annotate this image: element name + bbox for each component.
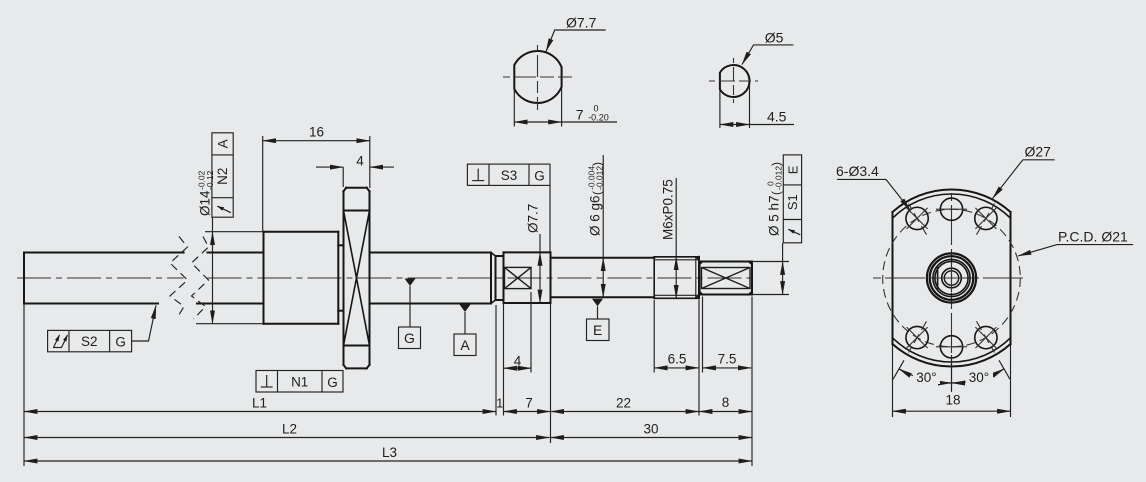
svg-text:N2: N2 bbox=[215, 168, 230, 185]
svg-text:E: E bbox=[593, 322, 602, 338]
svg-text:16: 16 bbox=[309, 125, 324, 140]
dim dia 7.7 journal (rotated) bbox=[539, 234, 541, 252]
svg-text:22: 22 bbox=[616, 396, 631, 411]
svg-text:): ) bbox=[769, 162, 783, 166]
dim 4.5 bbox=[719, 89, 721, 128]
svg-text:E: E bbox=[785, 165, 800, 174]
dim 7 with tolerance bbox=[513, 90, 515, 127]
journal dia 7.7 with flat (X box) bbox=[503, 252, 505, 303]
svg-text:A: A bbox=[460, 337, 470, 353]
svg-text:A: A bbox=[215, 139, 230, 148]
svg-text:-0.012: -0.012 bbox=[774, 166, 784, 190]
svg-text:Ø 5 h7: Ø 5 h7 bbox=[767, 195, 782, 236]
shaft dia 6 g6 section bbox=[553, 257, 655, 259]
dim 4 flange width bbox=[342, 167, 344, 187]
leader dia 27 bbox=[1023, 159, 1055, 161]
svg-text:N1: N1 bbox=[291, 374, 308, 389]
centerlines bbox=[709, 80, 758, 82]
radial centerline dashes through angled holes bbox=[977, 204, 995, 235]
flange flats (width 18) bbox=[892, 212, 894, 344]
dim dia 6 g6 with tolerance (rotated) bbox=[602, 155, 604, 258]
dim 22 bbox=[551, 411, 700, 413]
flat mark box on 5h7 journal bbox=[702, 268, 751, 289]
dim dia 5 h7 with tolerance (rotated) bbox=[753, 261, 789, 263]
svg-text:L2: L2 bbox=[282, 422, 297, 437]
flange end view outer arcs bbox=[893, 189, 1011, 212]
section view circle dia 7.7 bbox=[514, 51, 561, 103]
dim 4 flat length bbox=[504, 367, 532, 369]
leader P.C.D. dia 21 bbox=[1057, 244, 1133, 246]
dim 16 bbox=[262, 136, 264, 231]
svg-text:30°: 30° bbox=[969, 370, 989, 385]
hub center cross bbox=[937, 277, 966, 279]
svg-text:P.C.D. Ø21: P.C.D. Ø21 bbox=[1058, 229, 1128, 245]
dim 18 across flats bbox=[892, 345, 894, 417]
svg-text:4.5: 4.5 bbox=[767, 109, 787, 125]
leader 6-dia3.4 bbox=[837, 178, 886, 180]
neck between block and flange bbox=[338, 244, 343, 246]
shaft dia 8 right of flange bbox=[370, 252, 492, 254]
svg-text:Ø14: Ø14 bbox=[198, 190, 213, 216]
hub flat bbox=[937, 268, 939, 289]
break symbol zigzag 1 bbox=[170, 237, 188, 319]
svg-text:1: 1 bbox=[496, 397, 503, 411]
svg-text:4: 4 bbox=[356, 154, 364, 169]
svg-text:30°: 30° bbox=[916, 370, 936, 385]
leader dia 5 bbox=[742, 45, 793, 65]
centerlines bbox=[503, 76, 572, 78]
dim dia14 with tolerance (rotated) bbox=[205, 231, 263, 233]
svg-text:G: G bbox=[534, 168, 545, 183]
perpendicularity frame S3 bbox=[467, 164, 550, 185]
svg-text:7: 7 bbox=[576, 107, 584, 123]
ball screw shaft left section (dia 8) bbox=[23, 253, 25, 304]
dim 7 bbox=[504, 411, 551, 413]
svg-text:G: G bbox=[115, 335, 126, 350]
break symbol zigzag 2 bbox=[192, 237, 209, 320]
datum A on shaft surface bbox=[460, 305, 471, 313]
svg-text:6-Ø3.4: 6-Ø3.4 bbox=[836, 163, 879, 179]
runout frame S1/E vertical bbox=[783, 155, 801, 243]
svg-text:Ø5: Ø5 bbox=[765, 30, 784, 46]
svg-text:S3: S3 bbox=[501, 168, 518, 183]
datum G on axis bbox=[405, 279, 416, 287]
svg-text:L3: L3 bbox=[382, 445, 397, 460]
flat mark box on 7.7 journal bbox=[505, 267, 532, 288]
runout frame S2 with leader bbox=[48, 330, 132, 351]
svg-text:Ø7.7: Ø7.7 bbox=[526, 204, 541, 233]
center view centerlines bbox=[873, 277, 1026, 279]
svg-text:4: 4 bbox=[514, 354, 522, 369]
svg-text:7: 7 bbox=[525, 396, 533, 411]
svg-text:G: G bbox=[327, 375, 338, 390]
dim 8 bbox=[699, 411, 752, 413]
dim L3 bbox=[24, 460, 752, 462]
flange chamfer arcs bbox=[893, 194, 1011, 218]
dim L2 bbox=[24, 437, 550, 439]
6 bolt holes dia 3.4 bbox=[940, 198, 962, 220]
step / chamfer to dia 6 bbox=[551, 257, 553, 259]
section view circle dia 5 bbox=[720, 65, 750, 97]
svg-text:S2: S2 bbox=[81, 334, 98, 349]
svg-text:-0.20: -0.20 bbox=[588, 113, 609, 123]
relief neck (1 wide) bbox=[496, 255, 504, 257]
svg-text:S1: S1 bbox=[785, 194, 800, 210]
bolt circle P.C.D. 21 (dashed) bbox=[883, 209, 1021, 347]
svg-text:6.5: 6.5 bbox=[668, 352, 687, 367]
svg-text:M6xP0.75: M6xP0.75 bbox=[661, 179, 676, 240]
angular dim arcs 30deg bbox=[899, 369, 952, 383]
dim 6.5 bbox=[654, 367, 699, 369]
svg-text:Ø 6 g6: Ø 6 g6 bbox=[588, 195, 603, 236]
angular dim extension lines 30deg bbox=[999, 360, 1010, 379]
extension lines bottom bbox=[23, 304, 25, 467]
svg-text:L1: L1 bbox=[252, 396, 267, 411]
datum E bbox=[592, 299, 603, 307]
svg-text:): ) bbox=[590, 162, 604, 166]
svg-text:(: ( bbox=[769, 191, 783, 195]
svg-text:18: 18 bbox=[945, 393, 960, 408]
center hub concentric circles bbox=[927, 253, 976, 302]
svg-text:Ø7.7: Ø7.7 bbox=[566, 15, 597, 31]
end journal dia 5 h7 with flat (X box) bbox=[699, 262, 701, 295]
feature frame N2/A vertical bbox=[212, 133, 233, 217]
dim 30 bbox=[551, 437, 753, 439]
svg-text:Ø27: Ø27 bbox=[1025, 144, 1052, 160]
dim 7.5 bbox=[703, 367, 752, 369]
dim L1 bbox=[24, 411, 496, 413]
svg-text:8: 8 bbox=[722, 395, 730, 410]
M6 thread section bbox=[653, 257, 655, 299]
svg-text:7.5: 7.5 bbox=[718, 352, 737, 367]
svg-text:G: G bbox=[404, 330, 415, 346]
flange side view with wrench flats (X marks) bbox=[346, 187, 367, 189]
dim M6xP0.75 (rotated) bbox=[675, 178, 677, 257]
svg-text:(: ( bbox=[590, 191, 604, 195]
svg-text:-0.12: -0.12 bbox=[205, 170, 215, 190]
svg-text:-0.012: -0.012 bbox=[595, 166, 605, 190]
bearing journal block dia 14 bbox=[263, 232, 265, 324]
leader dia 7.7 bbox=[546, 30, 606, 52]
perpendicularity frame N1 bbox=[256, 371, 343, 393]
svg-text:30: 30 bbox=[643, 422, 658, 437]
main centerline (shaft axis) bbox=[17, 277, 184, 279]
